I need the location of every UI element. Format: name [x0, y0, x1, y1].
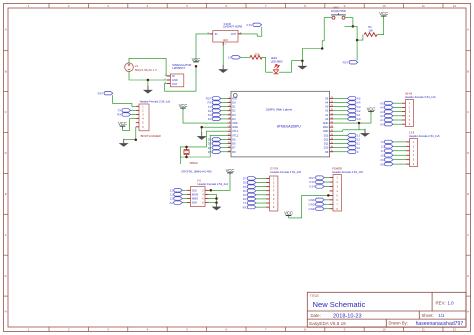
U-5V pin stubs	[167, 75, 170, 77]
svg-text:GND: GND	[232, 126, 238, 129]
svg-text:1/1: 1/1	[439, 313, 445, 318]
svg-text:BOOTLOADER: BOOTLOADER	[141, 134, 161, 138]
svg-text:haseenanaushad797: haseenanaushad797	[416, 321, 464, 327]
VCC net at regulators	[192, 57, 201, 62]
junction SW1 right	[352, 25, 355, 28]
junction right of U1	[358, 122, 361, 125]
VCC net below POWER	[284, 211, 293, 218]
LED LED1	[273, 64, 279, 73]
net flag RST at switch	[343, 60, 358, 64]
svg-text:RST: RST	[232, 97, 237, 100]
svg-text:LED-3MM: LED-3MM	[271, 60, 283, 64]
net flag RST top-left	[98, 91, 113, 95]
svg-text:Header-Female 2.54_1x6: Header-Female 2.54_1x6	[405, 95, 436, 99]
svg-text:A0: A0	[380, 122, 384, 126]
wire R2 to LED1	[245, 56, 250, 58]
wire SW1 right down	[345, 18, 353, 27]
svg-text:D13: D13	[324, 134, 329, 137]
svg-text:OUT: OUT	[172, 83, 178, 86]
svg-text:VCC: VCC	[226, 168, 235, 173]
svg-text:VDD: VDD	[232, 122, 237, 125]
svg-text:SDA: SDA	[192, 202, 197, 205]
svg-text:VCC: VCC	[179, 103, 188, 108]
wire RST node down to RST flag	[356, 40, 358, 60]
wire H1 pins 4,6,8 to ground	[209, 194, 217, 203]
svg-text:F: F	[467, 233, 469, 237]
svg-text:13-8: 13-8	[409, 131, 415, 135]
svg-text:VDD: VDD	[323, 130, 328, 133]
svg-text:12: 12	[453, 328, 457, 332]
VCC net at bootloader	[118, 121, 127, 128]
svg-text:Header-Female 2.54_1x6: Header-Female 2.54_1x6	[409, 134, 440, 138]
junction POWER pin5	[327, 194, 330, 197]
svg-text:POWER: POWER	[332, 167, 342, 171]
svg-text:2018-10-23: 2018-10-23	[333, 313, 362, 319]
ground under bootloader	[119, 139, 128, 147]
svg-text:A0: A0	[357, 117, 361, 121]
svg-text:XTL2: XTL2	[232, 134, 239, 137]
svg-text:B: B	[5, 69, 7, 73]
junction bootloader ground wire	[135, 138, 138, 141]
svg-text:VRef: VRef	[323, 126, 329, 129]
svg-text:EasyEDA V5.9.19: EasyEDA V5.9.19	[309, 321, 346, 326]
svg-text:13: 13	[380, 140, 384, 144]
svg-text:SCK: SCK	[192, 189, 197, 192]
svg-text:IN: IN	[215, 32, 218, 36]
wire V1 top to U-5V IN	[129, 58, 170, 76]
junction RST node	[356, 39, 359, 42]
wire RX to J1 pin3	[131, 114, 136, 116]
junction at U1 GND wire	[200, 126, 203, 129]
net flags left of H1	[169, 188, 187, 204]
wire junction to RST node	[353, 26, 357, 40]
svg-text:Date:: Date:	[311, 313, 321, 318]
svg-text:B: B	[467, 69, 469, 73]
svg-text:R1: R1	[368, 25, 372, 29]
net flags A5-A0 right of U1	[333, 97, 361, 122]
svg-text:3.3V: 3.3V	[309, 185, 315, 189]
net flags 13-9 right of U1	[333, 133, 360, 153]
svg-text:Header-Female 2.54_1x8: Header-Female 2.54_1x8	[332, 170, 363, 174]
svg-text:GND: GND	[308, 207, 314, 211]
net flags RST 3.3V 3.3V at POWER	[309, 176, 330, 189]
crystal X1 16MHz	[184, 147, 190, 157]
svg-text:LM7805CT: LM7805CT	[172, 66, 185, 70]
wire U1 XTL1 to crystal	[180, 131, 227, 164]
svg-text:New Schematic: New Schematic	[313, 300, 366, 309]
title block	[307, 292, 466, 327]
header J1 BOOTLOADER box	[139, 104, 149, 131]
svg-text:10: 10	[382, 328, 386, 332]
svg-text:MOSI: MOSI	[192, 193, 198, 196]
net flags left of J2	[243, 177, 266, 210]
svg-text:OUT: OUT	[231, 32, 237, 36]
svg-text:MISO: MISO	[192, 198, 198, 201]
regulator U-3V3 LM3940 box	[213, 31, 238, 43]
junction crystal top	[185, 146, 188, 149]
VCC net left of U1	[179, 103, 188, 110]
ground under V1	[143, 86, 152, 94]
wire RST flag to J1 pin1	[113, 95, 136, 106]
svg-text:D12: D12	[324, 138, 329, 141]
resistor R2 330	[250, 55, 262, 59]
svg-text:VCC: VCC	[118, 121, 127, 126]
wire U-3V3 OUT to 3.3V flag	[242, 27, 262, 36]
svg-text:Header-Female 2.54_1x6: Header-Female 2.54_1x6	[140, 100, 171, 104]
wire stub left of junction	[345, 25, 353, 27]
net flag 3.3V	[246, 23, 261, 27]
wire J1 pin6 to ground	[124, 127, 136, 140]
svg-text:328PU With Labels: 328PU With Labels	[266, 108, 293, 112]
svg-text:13: 13	[228, 55, 232, 59]
svg-text:XTL1: XTL1	[232, 130, 239, 133]
svg-text:D8: D8	[208, 150, 212, 154]
svg-text:REV:: REV:	[436, 301, 446, 306]
svg-text:E: E	[5, 192, 7, 196]
svg-text:10: 10	[382, 4, 386, 8]
header J4 A0-A5 box	[405, 100, 413, 127]
ground left of U1	[197, 132, 206, 140]
svg-text:A0-A5: A0-A5	[405, 91, 413, 95]
svg-text:11: 11	[381, 149, 384, 153]
ground under H1	[212, 202, 221, 210]
svg-text:D7-RX: D7-RX	[270, 167, 278, 171]
wire U1 GND to ground	[202, 127, 228, 132]
junction VCC node	[195, 65, 198, 68]
svg-text:D10: D10	[324, 147, 329, 150]
svg-text:08: 08	[380, 162, 384, 166]
wire VCC node up to U-3V3 IN	[196, 34, 209, 62]
net flag TX	[117, 109, 130, 113]
wire VCC to H1 pin2	[209, 173, 231, 191]
wire U-5V OUT to VCC node	[165, 66, 196, 91]
wire U1 right GND/VDD to VCC and ground	[333, 111, 371, 123]
svg-text:EVQ22705R: EVQ22705R	[331, 9, 346, 13]
svg-text:GND: GND	[172, 79, 178, 82]
svg-text:CRYSTAL 16MHz HC-49S: CRYSTAL 16MHz HC-49S	[181, 170, 212, 174]
junction crystal bottom	[185, 156, 188, 159]
U1 left pins	[227, 97, 239, 154]
junction LED/switch/ground	[301, 59, 304, 62]
svg-text:RST: RST	[309, 176, 315, 180]
svg-text:11: 11	[422, 4, 425, 8]
net flags A5-A0 at J4	[380, 101, 402, 126]
header J2 D7-RX box	[270, 176, 278, 211]
svg-text:D11: D11	[324, 143, 329, 146]
wire VCC to U1 VDD	[183, 108, 227, 123]
svg-text:Header-Female 2.54_1x8: Header-Female 2.54_1x8	[270, 170, 301, 174]
ground right of U1	[360, 129, 369, 137]
svg-text:3.3V: 3.3V	[246, 23, 252, 27]
AC source V1	[125, 63, 134, 72]
svg-text:SW1: SW1	[333, 5, 339, 9]
wire POWER pin5 to VCC	[289, 195, 330, 218]
svg-text:330: 330	[255, 52, 260, 56]
VCC net above R1	[379, 11, 388, 18]
svg-text:H: H	[5, 310, 7, 314]
VCC net above H1	[226, 168, 235, 175]
wire junction to ground	[147, 80, 149, 90]
header J3 POWER box	[333, 175, 342, 212]
wire R1 to VCC	[377, 16, 384, 35]
wire U1 XTL2 to crystal	[180, 135, 227, 157]
wire V1 bottom to U-5V GND	[129, 72, 170, 81]
svg-text:H1: H1	[198, 179, 202, 183]
wire flag 13 to R2	[240, 56, 245, 58]
svg-text:16MHZ: 16MHZ	[189, 161, 198, 165]
wire U-3V3 ADJ to ground	[222, 46, 224, 70]
svg-text:GND: GND	[323, 122, 329, 125]
svg-text:VCC: VCC	[367, 106, 376, 111]
U-3V3 pin stubs	[209, 33, 213, 35]
junction H1 pin2	[210, 189, 213, 192]
VCC net right of U1	[367, 106, 376, 113]
svg-text:10K: 10K	[368, 28, 373, 32]
net flag RX	[117, 113, 130, 117]
wire SW1 left to LED/ground node	[302, 18, 332, 61]
junction H1 pin8	[215, 201, 218, 204]
svg-text:A: A	[5, 27, 7, 31]
svg-text:Sheet:: Sheet:	[422, 313, 434, 318]
svg-text:12: 12	[453, 4, 457, 8]
U1 right pins	[323, 97, 334, 154]
svg-text:LM3940T NOPB: LM3940T NOPB	[223, 25, 242, 29]
net flags GND at POWER	[308, 198, 329, 211]
svg-text:LED1: LED1	[271, 56, 278, 60]
svg-text:A4: A4	[169, 201, 173, 205]
svg-text:Header-Female 2.54_2x4: Header-Female 2.54_2x4	[198, 182, 229, 186]
ground at LED/switch node	[298, 62, 307, 70]
svg-text:IN: IN	[172, 75, 175, 78]
wire VCC to J1 pin4	[123, 119, 136, 131]
svg-text:H: H	[467, 310, 469, 314]
svg-text:ATMEGA328PU: ATMEGA328PU	[277, 125, 301, 129]
svg-text:F: F	[5, 233, 7, 237]
svg-text:12: 12	[380, 144, 384, 148]
net flags 13-8 at J5	[380, 140, 406, 166]
header J5 13-8 box	[410, 139, 418, 167]
svg-text:SIN(0 1 50) AC 1 0: SIN(0 1 50) AC 1 0	[135, 68, 157, 72]
IC U1 ATMEGA328PU body	[231, 91, 330, 157]
svg-text:E: E	[467, 192, 469, 196]
svg-text:A: A	[467, 27, 469, 31]
svg-text:Drawn By:: Drawn By:	[389, 321, 408, 326]
svg-text:GND: GND	[308, 198, 314, 202]
svg-text:11: 11	[422, 328, 425, 332]
svg-text:1.0: 1.0	[448, 301, 455, 306]
svg-text:RST: RST	[343, 60, 349, 64]
wire RST node to R1	[357, 35, 363, 41]
header H1 2x4 box	[191, 187, 206, 207]
regulator U-5V LM7805CT box	[170, 74, 183, 87]
svg-text:10: 10	[380, 153, 384, 157]
svg-text:VCC: VCC	[284, 211, 293, 216]
svg-text:GND: GND	[308, 202, 314, 206]
wire LED1 to ground junction	[279, 61, 302, 72]
svg-text:RX: RX	[117, 113, 121, 117]
svg-text:09: 09	[380, 158, 384, 162]
junction H1 pin6	[215, 197, 218, 200]
svg-text:TITLE:: TITLE:	[310, 294, 320, 298]
svg-text:3.3V: 3.3V	[309, 180, 315, 184]
net flags D5-D8 left of U1	[208, 138, 228, 154]
junction switch-left corner	[321, 47, 324, 50]
net flags left of U1	[206, 97, 228, 122]
wire TX to J1 pin2	[131, 109, 136, 111]
svg-text:D4: D4	[208, 117, 212, 121]
svg-text:ADJ: ADJ	[223, 38, 229, 42]
junction V1 bottom	[147, 79, 150, 82]
ground under U-3V3 ADJ	[219, 65, 228, 73]
switch SW1 EVQ22705R	[331, 13, 346, 19]
resistor R1 10K	[364, 33, 377, 37]
svg-text:RX: RX	[243, 205, 247, 209]
net flag 13	[228, 55, 241, 59]
svg-text:RST: RST	[98, 91, 104, 95]
svg-text:V1: V1	[135, 64, 139, 68]
svg-text:VCC: VCC	[379, 11, 388, 16]
